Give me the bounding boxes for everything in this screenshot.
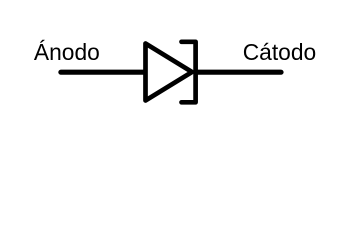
svg-text:Ánodo: Ánodo [34, 39, 100, 65]
svg-text:Cátodo: Cátodo [243, 39, 317, 65]
